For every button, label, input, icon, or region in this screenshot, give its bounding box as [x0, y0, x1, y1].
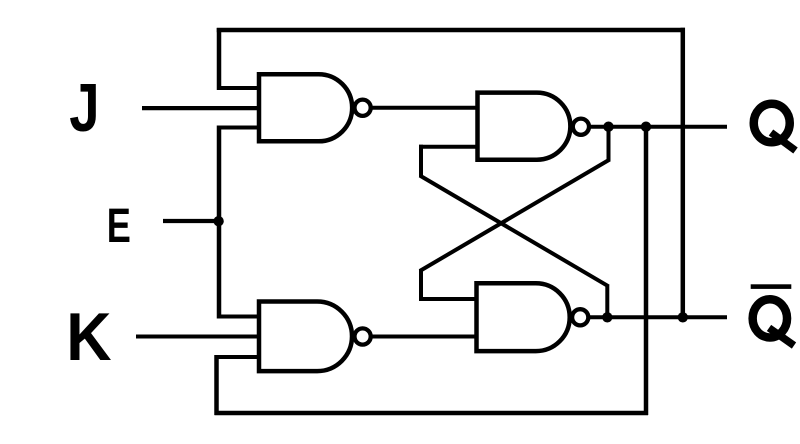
wire X upper-left vertical: [419, 145, 423, 178]
wire top rail: [217, 28, 685, 33]
wire right vertical Qbar feedback (x=683): [681, 28, 686, 318]
wire left vertical from top rail to U1 pin1: [217, 28, 222, 90]
wire X lower-left vertical: [419, 269, 423, 301]
junction dot Q node A2: [641, 122, 651, 132]
wire U1 pin3 stub: [217, 126, 259, 130]
wire right vertical Q feedback (x=646): [644, 127, 649, 415]
node Q label: [754, 104, 796, 151]
wire stub down from Q node A1: [607, 127, 611, 162]
wire K input: [136, 335, 259, 339]
NAND gate U3 (K gate, bottom-left): [259, 302, 371, 372]
wire Q output: [589, 125, 727, 129]
wire U2 pin2 stub: [419, 145, 478, 149]
wire U1 output to U2 pin1: [371, 106, 478, 110]
junction dot Q node A1: [603, 122, 613, 132]
wire bottom rail: [215, 411, 649, 416]
svg-text:E: E: [107, 200, 131, 253]
NAND gate U2 (top-right): [478, 93, 590, 160]
wire left vertical from U3 pin3 down to bottom rail: [214, 355, 219, 415]
svg-text:J: J: [69, 70, 99, 146]
wire Qbar output: [588, 315, 727, 319]
junction dot Qbar node B2: [678, 312, 688, 322]
junction dot Qbar node B1: [602, 312, 612, 322]
wire U3 pin3 stub: [215, 355, 259, 359]
wire stub down to Qbar node: [605, 285, 609, 318]
svg-text:K: K: [66, 299, 111, 375]
wire E vertical (U1 pin3 to U3 pin1): [217, 126, 222, 319]
node E label: [107, 200, 131, 253]
junction E dot: [213, 216, 223, 226]
wire U4 pin1 stub: [419, 297, 477, 301]
wire E input: [163, 219, 219, 223]
NAND gate U4 (bottom-right): [477, 283, 589, 351]
wire J input: [142, 106, 259, 110]
node Q-bar label: [751, 284, 794, 345]
wire U3 output to U4 pin2: [371, 335, 477, 339]
wire U3 pin1 stub: [217, 315, 259, 319]
node K label: [66, 299, 111, 375]
NAND gate U1 (J gate, top-left): [259, 74, 371, 141]
wire diagonal Q-cross (upper-right to lower-left): [420, 160, 610, 272]
wire top feedback horizontal into U1 pin1: [217, 86, 259, 90]
node J label: [69, 70, 99, 146]
wire diagonal Qbar-cross (upper-left to lower-right): [420, 176, 609, 287]
